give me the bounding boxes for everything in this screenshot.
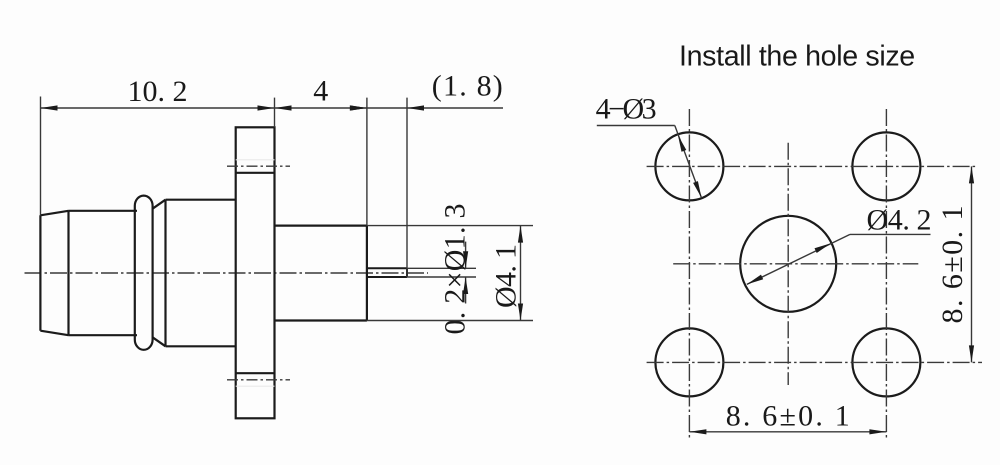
svg-text:8. 6±0. 1: 8. 6±0. 1 — [936, 206, 969, 324]
flange hole bottom outer edge (faint) — [236, 385, 275, 387]
svg-text:4−Ø3: 4−Ø3 — [596, 93, 657, 126]
vertical centerline right column — [885, 109, 887, 440]
front tip left edge — [39, 215, 41, 330]
arrow 04.2 lower-left — [747, 275, 763, 285]
center circle horizontal centerline — [673, 263, 918, 265]
body chamfer top — [152, 200, 165, 209]
body left edge — [164, 200, 166, 347]
hole circle top-left — [655, 132, 723, 200]
svg-text:8. 6±0. 1: 8. 6±0. 1 — [726, 400, 850, 433]
arrow 1.8 left (outside) — [350, 105, 367, 110]
rear body bottom — [275, 319, 367, 321]
right dim line 8.6 — [971, 166, 973, 362]
body bottom — [166, 345, 236, 347]
flange hole top centerline — [227, 165, 290, 167]
svg-text:Install the hole size: Install the hole size — [679, 41, 915, 73]
hole circle bottom-left — [655, 328, 723, 396]
horizontal centerline top row — [647, 165, 976, 167]
arrow 4 right — [350, 105, 367, 110]
body chamfer bottom — [152, 337, 165, 346]
rear dia ext top — [367, 225, 533, 227]
arrow bottom dim left (pointing left) — [689, 429, 706, 434]
pin dia dim line lower — [465, 277, 467, 304]
o-ring capsule — [135, 196, 153, 350]
pin top — [367, 267, 407, 269]
pin dia ext bottom — [407, 276, 476, 278]
pin end edge — [406, 268, 408, 277]
rear dia dim line — [520, 226, 522, 321]
leader 4-03 diagonal — [675, 126, 702, 198]
arrow bottom dim right (pointing right) — [869, 429, 886, 434]
arrow pin dia upper (pointing down) — [463, 251, 468, 268]
bottom dim line 8.6 — [689, 431, 886, 433]
svg-text:10. 2: 10. 2 — [128, 75, 188, 108]
center circle vertical centerline — [787, 143, 789, 385]
arrow 4-03 upper — [678, 135, 686, 152]
center circle — [740, 216, 836, 312]
svg-text:Ø4. 1: Ø4. 1 — [490, 244, 523, 308]
front tip taper top — [40, 211, 68, 216]
flange hole top outer edge (faint) — [236, 159, 275, 161]
flange hole bottom centerline — [227, 379, 290, 381]
leader 4-03 horizontal — [597, 125, 675, 127]
svg-text:(1. 8): (1. 8) — [432, 70, 503, 103]
front barrel top — [69, 210, 138, 212]
arrow right dim top (pointing up) — [969, 166, 974, 183]
ext line rear body right — [366, 98, 368, 226]
ext line pin end — [406, 98, 408, 278]
leader 04.2 diagonal — [747, 234, 850, 284]
leader 04.2 horizontal — [850, 233, 931, 235]
front tip taper bottom — [40, 331, 68, 336]
arrow rear dia top (pointing up) — [518, 226, 523, 243]
rear dia ext bottom — [367, 320, 533, 322]
hole circle bottom-right — [852, 328, 920, 396]
arrow 4-03 lower — [693, 181, 701, 198]
arrow 10.2 left — [41, 105, 58, 110]
arrow 1.8 right (outside) — [407, 105, 424, 110]
flange hole top inner edge — [236, 172, 275, 174]
arrow 4 left — [275, 105, 292, 110]
hole circle top-right — [852, 132, 920, 200]
ext line left tip — [40, 97, 42, 216]
pin bottom — [367, 276, 407, 278]
svg-text:Ø4. 2: Ø4. 2 — [867, 204, 932, 237]
svg-text:0. 2×Ø1. 3: 0. 2×Ø1. 3 — [439, 204, 472, 335]
top dimension line — [41, 107, 504, 109]
vertical centerline left column — [688, 109, 690, 440]
body top — [166, 199, 236, 201]
front tip divider — [67, 211, 69, 335]
arrow rear dia bottom (pointing down) — [518, 304, 523, 321]
main axis centerline — [25, 272, 429, 274]
arrow 10.2 right — [258, 105, 275, 110]
arrow 04.2 upper-right — [815, 243, 831, 253]
svg-text:4: 4 — [313, 75, 328, 108]
rear body right edge — [366, 226, 368, 321]
arrow right dim bottom (pointing down) — [969, 345, 974, 362]
pin dia dim line upper — [465, 242, 467, 269]
arrow pin dia lower (pointing up) — [463, 277, 468, 294]
flange outline — [236, 127, 275, 418]
rear body top — [275, 225, 367, 227]
flange hole bottom inner edge — [236, 372, 275, 374]
ext line flange right — [274, 98, 276, 128]
horizontal centerline bottom row — [647, 361, 982, 363]
front barrel bottom — [69, 334, 138, 336]
pin dia ext top — [407, 267, 476, 269]
